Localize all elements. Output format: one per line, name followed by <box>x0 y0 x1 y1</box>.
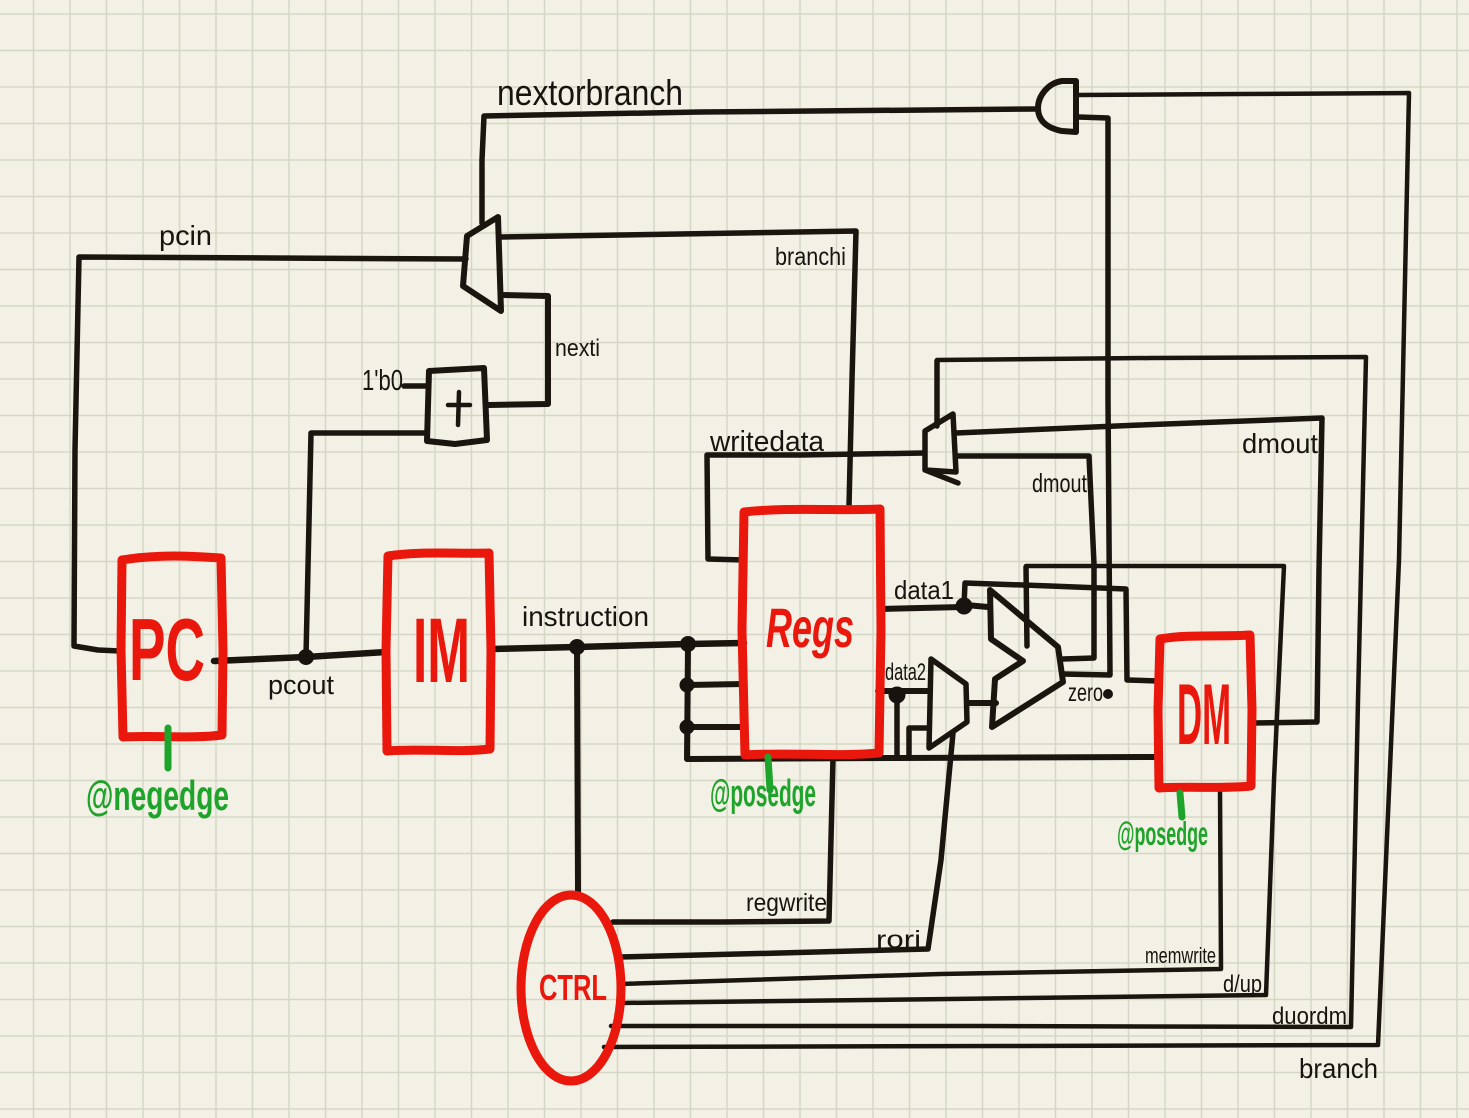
gate G1 (and gate, flat side right) <box>1038 81 1076 132</box>
svg-text:pcout: pcout <box>268 670 334 700</box>
wire pcout <box>214 652 386 661</box>
wire dmout net <box>956 418 1322 723</box>
svg-text:branchi: branchi <box>775 243 846 271</box>
green annotations <box>168 728 1182 817</box>
clock stem DM <box>1180 793 1182 817</box>
wire branch net from gate output <box>604 93 1409 1047</box>
wire d/up net <box>620 566 1284 1003</box>
node instruction-regs junction <box>680 636 696 652</box>
wire memwrite net <box>619 789 1221 984</box>
black labels <box>159 72 1378 1084</box>
wire regwrite net <box>613 758 833 922</box>
node data1 junction <box>956 598 973 615</box>
wire adder input from pcout <box>306 433 427 656</box>
wire branchi <box>501 231 856 506</box>
mux M2 alu source mux <box>929 659 967 748</box>
svg-text:nexti: nexti <box>555 335 600 362</box>
wire writedata <box>707 453 924 560</box>
svg-text:duordm: duordm <box>1272 1003 1347 1030</box>
wire data1 to DM <box>964 583 1158 681</box>
wire duordm net <box>611 357 1366 1027</box>
wire instruction to CTRL <box>577 648 578 892</box>
node regs stub3 junction <box>680 720 695 735</box>
adder U1 <box>427 368 487 444</box>
svg-text:@posedge: @posedge <box>710 773 816 815</box>
wire nextorbranch net <box>482 109 1037 223</box>
wire data1 <box>881 605 988 609</box>
svg-text:1'b0: 1'b0 <box>362 365 403 397</box>
svg-text:writedata: writedata <box>709 426 825 458</box>
svg-text:branch: branch <box>1299 1053 1378 1084</box>
adder plus sign <box>448 392 470 425</box>
svg-text:data2: data2 <box>885 659 926 686</box>
block IM <box>386 553 491 751</box>
wire instruction column to regs and DM <box>687 645 1159 759</box>
wire nexti <box>489 295 548 405</box>
node pcout junction <box>298 649 314 665</box>
svg-text:nextorbranch: nextorbranch <box>497 72 683 113</box>
clock stem Regs <box>768 757 770 790</box>
red blocks <box>121 509 1252 1081</box>
svg-text:@negedge: @negedge <box>86 772 229 819</box>
wire instruction <box>491 643 744 649</box>
clock stem PC <box>165 728 172 768</box>
node data2 junction <box>889 687 906 704</box>
svg-text:CTRL: CTRL <box>539 967 607 1008</box>
svg-text:@posedge: @posedge <box>1117 815 1208 852</box>
svg-text:instruction: instruction <box>522 601 649 632</box>
svg-text:Regs: Regs <box>766 596 854 659</box>
wire data2 drop to dm bus <box>894 695 900 755</box>
svg-text:dmout: dmout <box>1032 468 1088 498</box>
block CTRL ellipse <box>521 895 621 1081</box>
wire regs input stub 3 <box>687 724 744 730</box>
wire duordm select vertical <box>934 361 940 426</box>
wire aluout to writeback mux <box>956 456 1094 659</box>
svg-text:DM: DM <box>1177 667 1231 763</box>
junction dots <box>298 598 1113 735</box>
wire mux2 lower input stub <box>909 728 928 756</box>
svg-text:rori: rori <box>876 926 921 954</box>
svg-text:memwrite: memwrite <box>1145 943 1216 968</box>
ALU A1 <box>990 590 1063 727</box>
block PC <box>121 556 223 737</box>
wire regs input stub 2 <box>687 684 744 685</box>
node regs stub2 junction <box>680 678 695 693</box>
red text labels <box>129 596 1231 1008</box>
svg-text:IM: IM <box>413 600 470 702</box>
mux M3 writeback mux <box>925 414 958 483</box>
svg-text:data1: data1 <box>894 575 954 605</box>
block Regs <box>742 509 881 755</box>
svg-text:zero: zero <box>1068 679 1103 707</box>
svg-text:d/up: d/up <box>1223 971 1262 998</box>
wire data2 <box>878 688 928 694</box>
mux M1 (pc source mux) <box>463 217 501 311</box>
svg-text:pcin: pcin <box>159 220 212 251</box>
wire mux2 output to ALU <box>967 700 996 706</box>
svg-text:regwrite: regwrite <box>746 889 827 917</box>
wire ALU op select <box>1026 567 1027 646</box>
node instruction-ctrl junction <box>569 639 585 655</box>
wire pcin net <box>74 257 466 651</box>
node zero period <box>1103 689 1113 699</box>
wire 1'b0 stub <box>404 383 427 389</box>
svg-text:PC: PC <box>129 600 205 699</box>
svg-text:dmout: dmout <box>1242 428 1318 459</box>
block DM <box>1158 635 1252 788</box>
wire zero to gate <box>1062 117 1110 675</box>
wire rori net <box>619 733 953 957</box>
